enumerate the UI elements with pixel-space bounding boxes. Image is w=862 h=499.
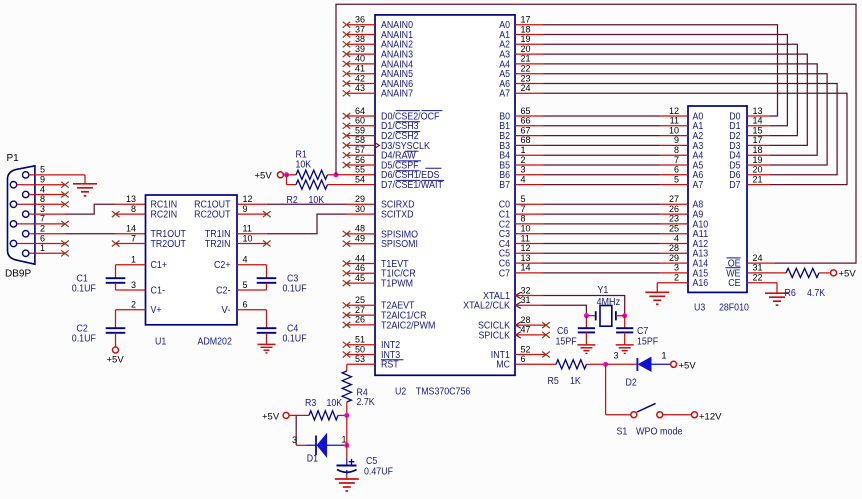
svg-text:1: 1 <box>40 243 45 253</box>
ground at U3 A16 <box>645 291 669 293</box>
underline on INT3 label <box>381 359 404 361</box>
ground at U3 CE <box>765 292 789 294</box>
svg-text:0.1UF: 0.1UF <box>72 283 96 294</box>
svg-text:22: 22 <box>521 64 531 74</box>
wire P1 pin4 no-connect <box>29 194 65 196</box>
svg-text:12: 12 <box>521 243 531 253</box>
svg-text:XTAL2/CLK: XTAL2/CLK <box>463 301 510 312</box>
resistor R5 <box>556 360 587 369</box>
capacitor C5 electrolytic <box>346 445 348 458</box>
svg-text:4: 4 <box>674 233 679 243</box>
svg-text:58: 58 <box>355 135 365 145</box>
svg-text:0.1UF: 0.1UF <box>283 283 307 294</box>
svg-text:6: 6 <box>521 354 526 364</box>
svg-text:32: 32 <box>521 285 531 295</box>
svg-text:Y1: Y1 <box>598 285 609 296</box>
junction right of crystal <box>622 313 627 318</box>
net MC: U2 pin6 to R5 <box>515 363 544 365</box>
svg-text:D1: D1 <box>307 454 318 465</box>
U2 right no-connect stubs SCICLK SPICLK <box>515 324 546 326</box>
svg-text:10: 10 <box>243 233 253 243</box>
svg-text:55: 55 <box>355 165 365 175</box>
net SCITXD: U2 pin30 to U1 TR1IN <box>347 213 376 215</box>
svg-text:26: 26 <box>669 204 679 214</box>
svg-text:18: 18 <box>753 145 763 155</box>
address bus nets U2 C0-C7 to U3 A8-A15 <box>515 203 544 205</box>
ground at P1 pin 5 <box>73 183 97 185</box>
capacitor C6 <box>585 316 587 329</box>
capacitor C7 <box>624 316 626 329</box>
svg-text:0.1UF: 0.1UF <box>72 333 96 344</box>
svg-text:38: 38 <box>355 34 365 44</box>
svg-text:R5: R5 <box>548 376 559 387</box>
svg-text:12: 12 <box>669 106 679 116</box>
svg-text:41: 41 <box>355 64 365 74</box>
svg-text:13: 13 <box>521 253 531 263</box>
svg-text:R3: R3 <box>305 398 316 409</box>
svg-text:2: 2 <box>521 155 526 165</box>
svg-text:8: 8 <box>131 204 136 214</box>
svg-text:48: 48 <box>355 224 365 234</box>
svg-text:52: 52 <box>521 344 531 354</box>
svg-text:66: 66 <box>521 116 531 126</box>
U2 left no-connect stubs T2 group <box>347 304 376 306</box>
wire P1 pin9 no-connect <box>17 184 65 186</box>
U1 pin7 TR2OUT stub no-connect <box>116 243 146 245</box>
net XTAL1 from U2 pin32 <box>515 295 544 297</box>
junction R4 bottom <box>344 413 349 418</box>
svg-text:TR2OUT: TR2OUT <box>151 239 187 250</box>
U2 clock arrow marks <box>374 142 379 148</box>
svg-text:46: 46 <box>355 263 365 273</box>
svg-text:15: 15 <box>753 125 763 135</box>
junction at R1 right / top bus <box>334 172 339 177</box>
svg-text:U1: U1 <box>155 337 166 348</box>
svg-text:C2-: C2- <box>216 285 231 296</box>
svg-text:5: 5 <box>674 174 679 184</box>
svg-text:5: 5 <box>521 194 526 204</box>
svg-text:DB9P: DB9P <box>5 269 31 280</box>
svg-text:47: 47 <box>521 325 531 335</box>
svg-text:60: 60 <box>355 116 365 126</box>
svg-text:21: 21 <box>521 54 531 64</box>
svg-text:15PF: 15PF <box>637 336 658 347</box>
svg-text:56: 56 <box>355 155 365 165</box>
svg-text:4.7K: 4.7K <box>807 288 825 299</box>
svg-text:2.7K: 2.7K <box>357 397 375 408</box>
svg-text:T2AIC2/PWM: T2AIC2/PWM <box>381 320 435 331</box>
svg-text:1: 1 <box>521 145 526 155</box>
svg-text:10: 10 <box>521 224 531 234</box>
wire +5V to junction <box>283 174 286 176</box>
capacitor C1 <box>116 264 146 266</box>
svg-text:51: 51 <box>355 335 365 345</box>
svg-text:18: 18 <box>521 24 531 34</box>
svg-text:3: 3 <box>521 165 526 175</box>
svg-text:3: 3 <box>131 280 136 290</box>
svg-text:T1PWM: T1PWM <box>381 279 413 290</box>
svg-text:49: 49 <box>355 234 365 244</box>
U1 pin8 RC2IN stub no-connect <box>116 213 146 215</box>
svg-text:4: 4 <box>40 184 45 194</box>
svg-text:5: 5 <box>40 165 45 175</box>
svg-text:42: 42 <box>355 73 365 83</box>
svg-text:SPISOMI: SPISOMI <box>381 239 418 250</box>
svg-text:SPICLK: SPICLK <box>479 330 511 341</box>
svg-text:R6: R6 <box>785 288 796 299</box>
svg-text:54: 54 <box>355 174 365 184</box>
svg-text:50: 50 <box>355 344 365 354</box>
svg-text:C1-: C1- <box>151 285 166 296</box>
svg-text:2: 2 <box>40 224 45 234</box>
wire P1 pin1 no-connect <box>29 252 65 254</box>
svg-text:13: 13 <box>126 194 136 204</box>
svg-text:RST: RST <box>381 360 399 371</box>
svg-text:0.1UF: 0.1UF <box>283 333 307 344</box>
svg-text:2: 2 <box>674 273 679 283</box>
svg-text:A7: A7 <box>693 180 704 191</box>
svg-text:2: 2 <box>131 300 136 310</box>
svg-text:28: 28 <box>521 315 531 325</box>
svg-text:1: 1 <box>131 255 136 265</box>
power terminal +5V at D2 <box>671 361 677 367</box>
svg-text:65: 65 <box>521 106 531 116</box>
svg-text:1: 1 <box>662 351 667 361</box>
svg-text:6: 6 <box>243 300 248 310</box>
svg-text:+5V: +5V <box>255 171 273 182</box>
wire junction down to switch S1 <box>605 364 607 414</box>
svg-text:9: 9 <box>40 175 45 185</box>
power terminal +12V at S1 <box>692 412 698 418</box>
svg-text:P1: P1 <box>7 153 20 164</box>
U2 left no-connect stubs ANAIN0-7 <box>347 24 376 26</box>
svg-text:6: 6 <box>674 165 679 175</box>
svg-text:C2+: C2+ <box>214 260 231 271</box>
capacitor C3 <box>237 264 267 266</box>
svg-text:4MHz: 4MHz <box>597 297 621 308</box>
svg-text:7: 7 <box>40 214 45 224</box>
svg-text:10: 10 <box>669 125 679 135</box>
svg-text:20: 20 <box>753 165 763 175</box>
U1 pin9 RC2OUT stub no-connect <box>237 213 267 215</box>
svg-text:0.47UF: 0.47UF <box>364 466 393 477</box>
svg-text:24: 24 <box>753 253 763 263</box>
svg-text:29: 29 <box>355 194 365 204</box>
connector P1 DB9P outline <box>8 166 35 264</box>
ground below C5 <box>335 478 359 480</box>
svg-text:4: 4 <box>521 174 526 184</box>
svg-text:6: 6 <box>40 233 45 243</box>
ground below C6 <box>577 344 595 346</box>
connector P1 pin circles <box>23 172 29 178</box>
junction above C5 <box>344 443 349 448</box>
svg-text:D7/CSE1/WAIT: D7/CSE1/WAIT <box>381 180 444 191</box>
microcontroller U2 TMS370C756 body <box>375 15 515 375</box>
overbar/underline marks on U2 D pin labels <box>396 110 420 112</box>
wire P1 pin3 to U1 RC1IN <box>29 213 65 215</box>
svg-text:V+: V+ <box>151 305 162 316</box>
U2 left no-connect stubs INT2 INT3 <box>347 344 376 346</box>
svg-text:24: 24 <box>521 83 531 93</box>
wire R1 to U2 pin55 <box>336 174 375 176</box>
svg-text:26: 26 <box>355 315 365 325</box>
resistor R6 <box>786 268 819 277</box>
svg-text:V-: V- <box>221 305 230 316</box>
svg-text:MC: MC <box>496 360 510 371</box>
svg-text:29: 29 <box>669 253 679 263</box>
resistor R3 <box>289 414 309 416</box>
wire D1 cathode to junction <box>344 444 347 446</box>
svg-text:53: 53 <box>355 354 365 364</box>
svg-text:12: 12 <box>243 194 253 204</box>
svg-text:23: 23 <box>521 73 531 83</box>
svg-text:RC2OUT: RC2OUT <box>194 210 231 221</box>
svg-text:+12V: +12V <box>699 411 722 422</box>
memory U3 28F010 body <box>688 106 747 292</box>
net SCIRXD: U1 RC1OUT to U2 pin29 <box>237 203 267 205</box>
svg-text:40: 40 <box>355 54 365 64</box>
svg-text:25: 25 <box>355 295 365 305</box>
svg-text:11: 11 <box>670 116 679 126</box>
svg-text:11: 11 <box>521 233 530 243</box>
svg-text:14: 14 <box>753 116 763 126</box>
svg-text:D7: D7 <box>729 180 740 191</box>
junction at R5 right <box>603 362 608 367</box>
svg-text:CE: CE <box>728 278 740 289</box>
wire D1 anode side <box>296 444 306 446</box>
svg-text:28: 28 <box>669 243 679 253</box>
svg-text:44: 44 <box>355 253 365 263</box>
crystal Y1 <box>586 315 595 317</box>
power terminal +5V at R3 <box>283 412 289 418</box>
wire down-left branch to D1 <box>295 415 297 445</box>
power terminal +5V at R6 <box>831 270 837 276</box>
svg-text:5: 5 <box>243 280 248 290</box>
svg-text:RC2IN: RC2IN <box>151 210 178 221</box>
svg-text:3: 3 <box>292 435 297 445</box>
svg-text:19: 19 <box>753 155 763 165</box>
power terminal +5V at R1 <box>277 172 283 178</box>
U2 left no-connect stubs D0-D5 <box>347 115 376 117</box>
svg-text:20: 20 <box>521 44 531 54</box>
svg-text:14: 14 <box>126 224 136 234</box>
svg-text:A7: A7 <box>499 89 510 100</box>
svg-text:C7: C7 <box>499 268 510 279</box>
svg-text:1K: 1K <box>570 376 581 387</box>
wire P1 pin8 no-connect <box>17 203 65 205</box>
svg-text:9: 9 <box>243 204 248 214</box>
svg-text:14: 14 <box>521 263 531 273</box>
svg-text:7: 7 <box>131 233 136 243</box>
svg-text:C1+: C1+ <box>151 260 168 271</box>
svg-text:43: 43 <box>355 83 365 93</box>
svg-text:8: 8 <box>521 214 526 224</box>
net OE: top bus from R1 junction to U3 OE <box>336 4 856 263</box>
wire P1 pin5 to ground <box>29 174 85 176</box>
address bus nets U2 B0-B7 to U3 A0-A7 <box>515 115 544 117</box>
junction left of crystal <box>584 313 589 318</box>
svg-text:59: 59 <box>355 125 365 135</box>
svg-text:31: 31 <box>521 295 531 305</box>
diode D1 <box>307 444 345 446</box>
svg-text:11: 11 <box>243 224 252 234</box>
wire junction to D2 <box>606 363 637 365</box>
capacitor C4 <box>237 309 267 311</box>
svg-text:ADM202: ADM202 <box>198 337 233 348</box>
svg-text:37: 37 <box>355 24 365 34</box>
svg-text:15PF: 15PF <box>556 336 577 347</box>
svg-text:4: 4 <box>243 255 248 265</box>
U1 pin10 TR2IN stub no-connect <box>237 243 267 245</box>
svg-text:3: 3 <box>40 204 45 214</box>
resistor R2 <box>287 184 297 186</box>
wire R2 branch vertical <box>286 175 288 185</box>
svg-text:30: 30 <box>355 204 365 214</box>
capacitor C2 <box>116 309 146 311</box>
svg-text:3: 3 <box>614 351 619 361</box>
op-amp U1 ADM202 body <box>146 195 238 325</box>
svg-text:U2: U2 <box>395 387 406 398</box>
svg-text:WPO mode: WPO mode <box>636 426 683 437</box>
svg-text:B7: B7 <box>499 180 510 191</box>
svg-text:13: 13 <box>753 106 763 116</box>
svg-text:3: 3 <box>674 263 679 273</box>
svg-text:17: 17 <box>521 15 531 25</box>
svg-text:U3: U3 <box>694 302 705 313</box>
ground below C7 <box>616 344 634 346</box>
svg-text:10K: 10K <box>296 160 312 171</box>
svg-text:19: 19 <box>521 34 531 44</box>
svg-text:21: 21 <box>753 174 763 184</box>
wire R4 junction down to C5 <box>346 415 348 445</box>
wire P1 pin7 no-connect <box>17 223 65 225</box>
svg-text:R2: R2 <box>287 195 298 206</box>
ground below C4 <box>258 343 276 345</box>
switch S1 <box>631 412 637 418</box>
svg-text:7: 7 <box>521 204 526 214</box>
net XTAL2 from U2 pin31 <box>515 304 544 306</box>
net RST: U2 pin53 to R4 <box>347 363 375 365</box>
svg-text:D2: D2 <box>626 378 637 389</box>
svg-text:22: 22 <box>753 273 763 283</box>
svg-text:10K: 10K <box>327 398 343 409</box>
U2 right no-connect stub INT1 <box>515 354 546 356</box>
wire P1 pin6 no-connect <box>17 243 65 245</box>
diode D2 <box>636 358 638 371</box>
resistor R4 <box>342 371 351 402</box>
svg-text:27: 27 <box>669 194 679 204</box>
svg-text:67: 67 <box>521 125 531 135</box>
svg-text:ANAIN7: ANAIN7 <box>381 89 413 100</box>
svg-text:SCITXD: SCITXD <box>381 210 414 221</box>
svg-text:28F010: 28F010 <box>719 302 749 313</box>
svg-text:S1: S1 <box>617 426 628 437</box>
svg-text:31: 31 <box>753 263 763 273</box>
svg-text:64: 64 <box>355 106 365 116</box>
svg-text:39: 39 <box>355 44 365 54</box>
svg-text:TR2IN: TR2IN <box>205 239 231 250</box>
svg-text:27: 27 <box>355 305 365 315</box>
data bus wires U2 A0-A7 to U3 D0-D7 <box>515 24 544 26</box>
svg-text:68: 68 <box>521 135 531 145</box>
svg-text:8: 8 <box>40 194 45 204</box>
svg-text:+5V: +5V <box>839 269 857 280</box>
svg-text:+5V: +5V <box>679 360 697 371</box>
svg-text:10K: 10K <box>309 195 325 206</box>
svg-text:TMS370C756: TMS370C756 <box>416 387 471 398</box>
svg-text:7: 7 <box>674 155 679 165</box>
svg-text:+5V: +5V <box>262 412 280 423</box>
power terminal +5V below C2 <box>113 347 119 353</box>
wire U3 A16 to ground <box>657 282 688 284</box>
svg-text:23: 23 <box>669 214 679 224</box>
svg-text:A16: A16 <box>693 278 709 289</box>
wire R2 to U2 pin54 <box>347 184 376 186</box>
svg-text:57: 57 <box>355 145 365 155</box>
svg-text:8: 8 <box>674 145 679 155</box>
svg-text:+5V: +5V <box>107 355 125 366</box>
junction at R1/R2 branch <box>284 172 289 177</box>
U2 left no-connect stubs T1 group <box>347 263 376 265</box>
net WE through R6 to +5V <box>747 272 786 274</box>
svg-text:25: 25 <box>669 224 679 234</box>
wire U3 CE to ground <box>747 282 777 284</box>
svg-text:36: 36 <box>355 15 365 25</box>
wire P1 pin2 to U1 TR1OUT <box>29 233 65 235</box>
U2 left no-connect stubs SPI <box>347 233 376 235</box>
svg-text:45: 45 <box>355 273 365 283</box>
svg-text:17: 17 <box>753 135 763 145</box>
resistor R1 <box>287 174 297 176</box>
svg-text:9: 9 <box>674 135 679 145</box>
